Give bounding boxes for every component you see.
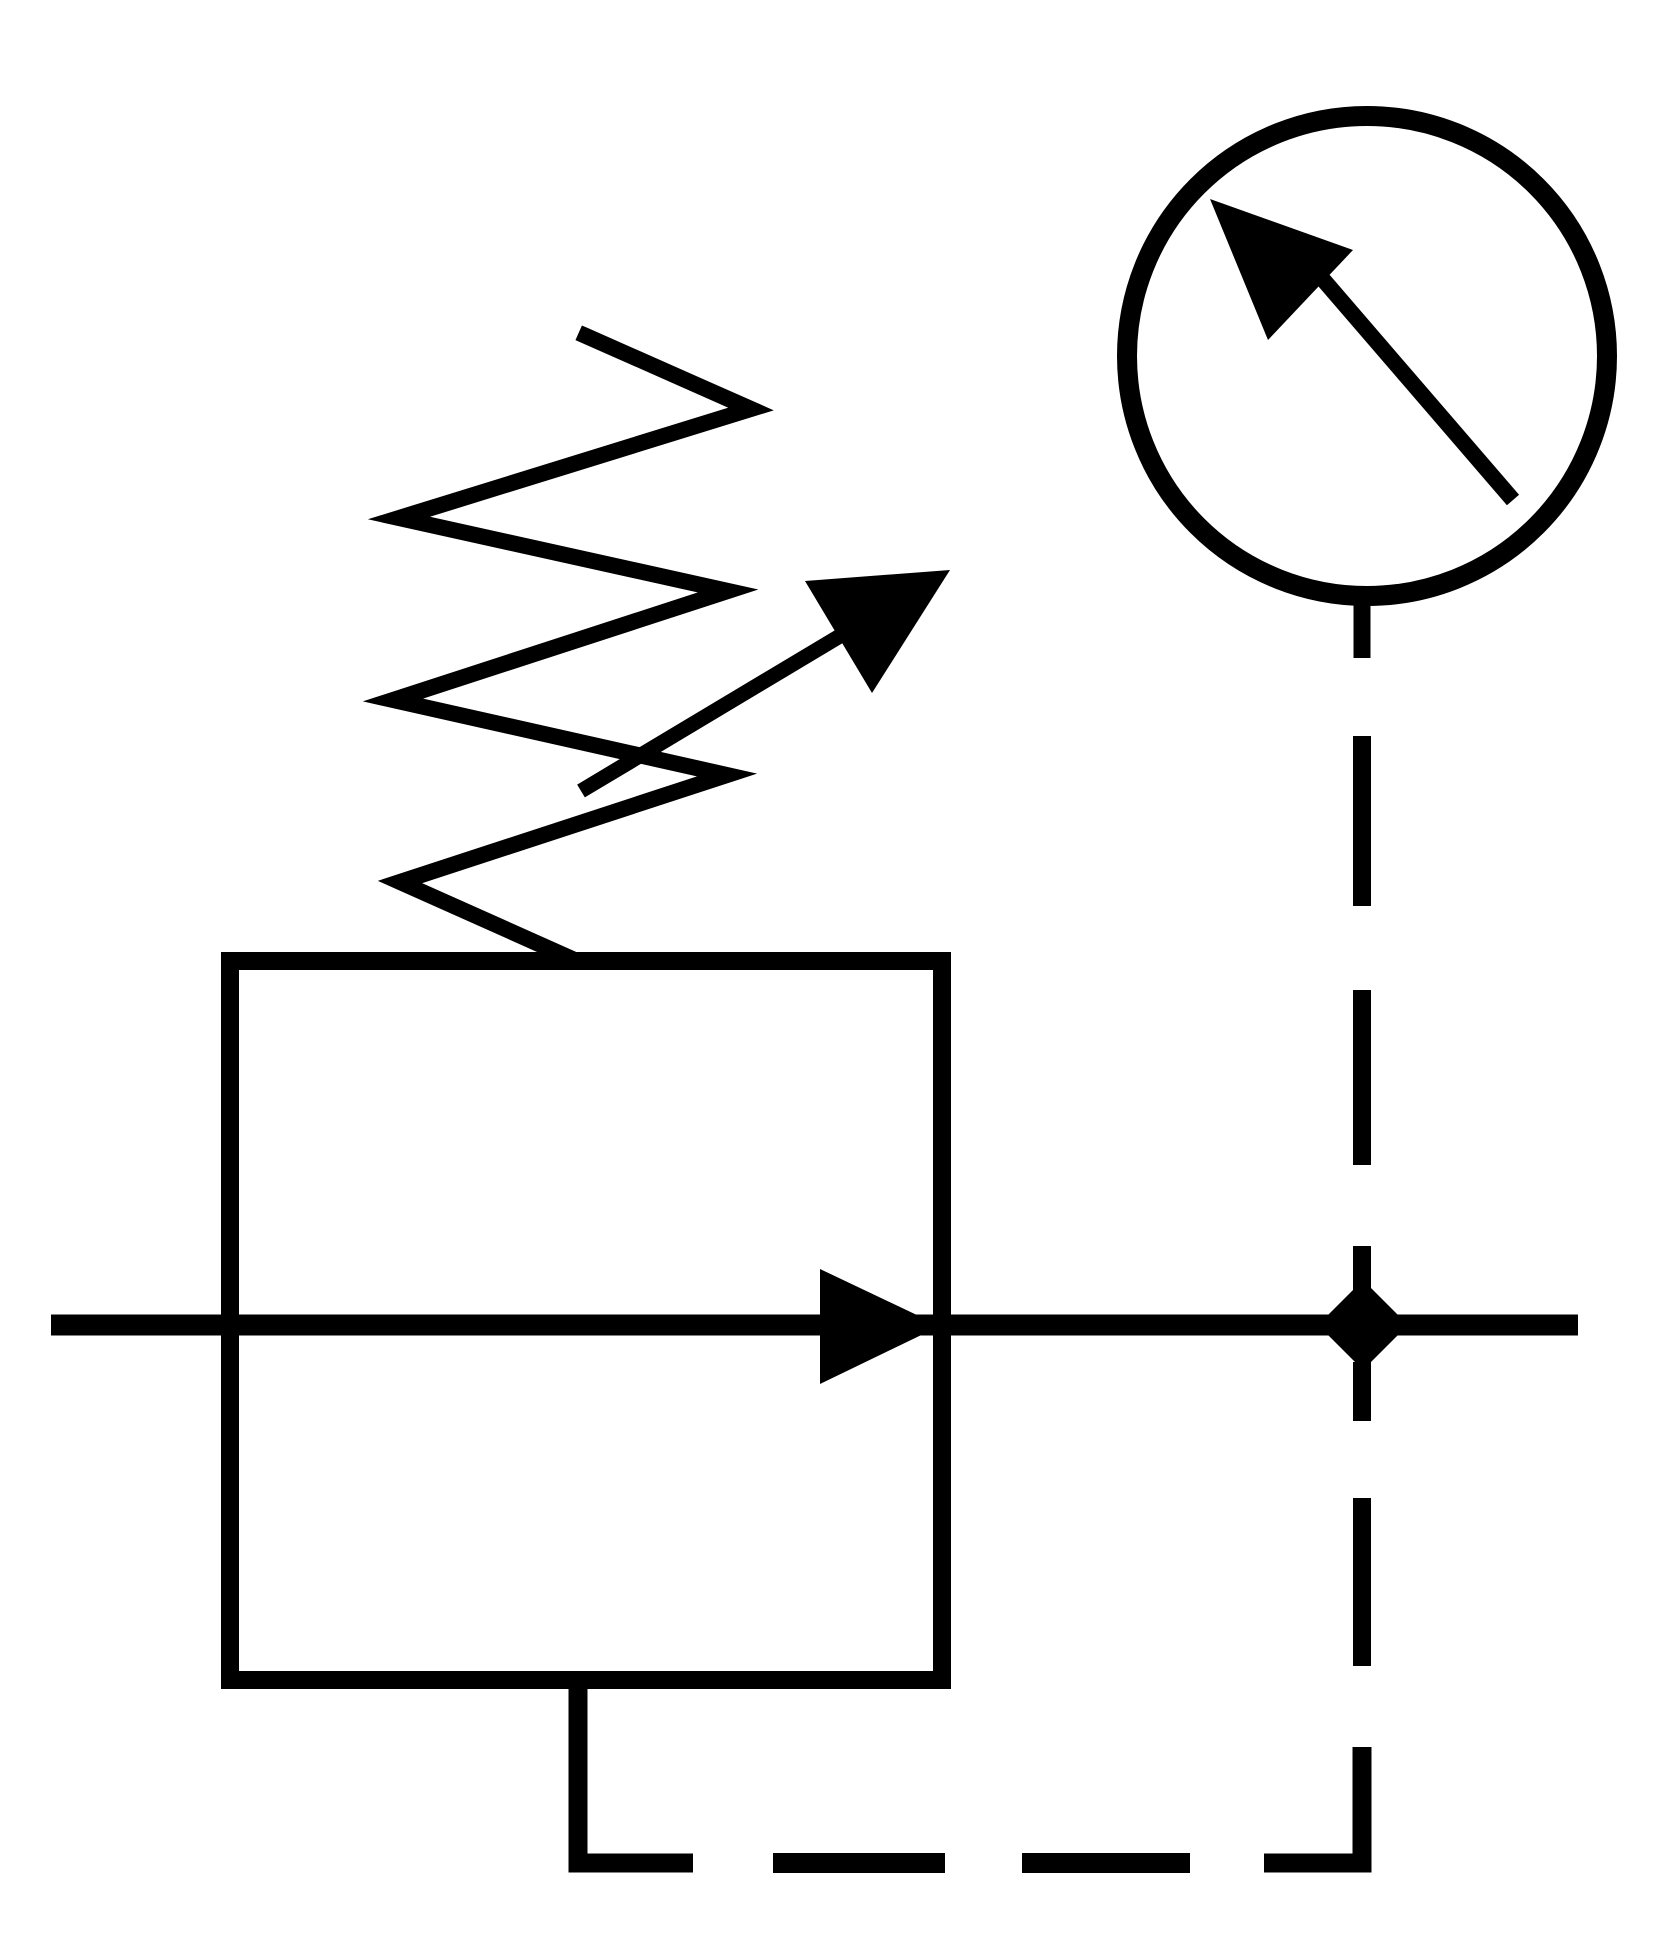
pilot line dash 3 (1353, 1498, 1371, 1666)
bottom pilot dash 1 (773, 1853, 945, 1873)
bottom pilot dash 2 (1022, 1853, 1190, 1873)
gauge needle shaft (1308, 262, 1513, 500)
adjustment arrow shaft (581, 618, 870, 791)
junction diamond node (1318, 1280, 1408, 1370)
pilot line stub below junction (1353, 1362, 1371, 1421)
gauge circle (1127, 116, 1607, 596)
pilot line stub above junction (1353, 1246, 1371, 1290)
pilot line dash 1 (1353, 736, 1371, 906)
gauge stem (1354, 598, 1371, 658)
regulator body box (230, 961, 942, 1680)
gauge needle head (1210, 199, 1353, 340)
drain line from box bottom (578, 1680, 693, 1863)
pilot line dash 2 (1353, 990, 1371, 1165)
spring (zigzag above box) (393, 336, 751, 957)
adjustment arrow head (805, 570, 950, 693)
pilot line corner dash (1264, 1747, 1362, 1863)
flow arrow head (820, 1269, 940, 1384)
flow line (inlet to outlet) (51, 1315, 1578, 1336)
